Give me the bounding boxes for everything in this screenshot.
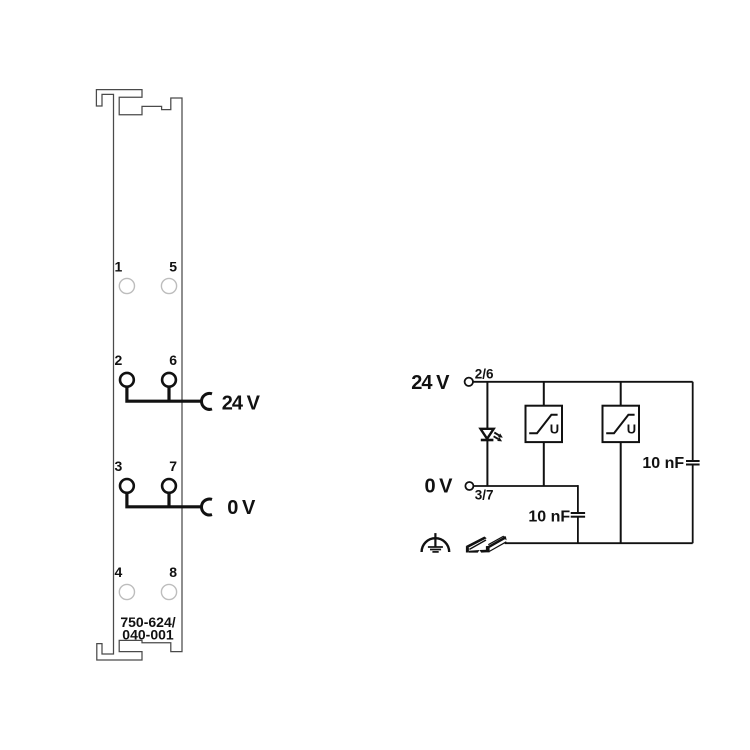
wire 0V down to C1	[577, 485, 579, 513]
capacitor C2 10nF	[686, 460, 700, 462]
LED D1	[481, 429, 494, 439]
wire 0V rail	[474, 485, 578, 487]
wire 24V rail	[473, 381, 692, 383]
filter block U1	[526, 406, 563, 442]
svg-text:24 V: 24 V	[411, 372, 450, 394]
terminal 7	[162, 479, 176, 493]
wire stub 7	[167, 493, 170, 507]
U2 lower wire	[620, 442, 622, 543]
svg-text:040-001: 040-001	[122, 627, 174, 643]
bottom band right	[480, 550, 487, 553]
svg-text:6: 6	[169, 352, 177, 368]
svg-text:0 V: 0 V	[425, 476, 454, 498]
terminal 2	[120, 373, 134, 387]
wire right branch down	[692, 382, 694, 461]
right flange bottom edge	[489, 542, 506, 552]
connector arc 24V	[202, 393, 212, 409]
svg-text:U: U	[550, 422, 559, 437]
left flange inner edge	[469, 540, 486, 549]
U1 lower wire	[543, 442, 545, 486]
svg-text:8: 8	[169, 564, 177, 580]
DIN rail symbol	[466, 536, 507, 553]
svg-text:5: 5	[169, 259, 177, 275]
LED D1 branch wire	[486, 382, 488, 429]
wire stub 6	[167, 387, 170, 402]
right foot	[486, 546, 490, 553]
svg-text:10 nF: 10 nF	[642, 455, 684, 472]
right flange front bar	[488, 537, 507, 548]
terminal node 2/6	[465, 378, 473, 386]
svg-text:2/6: 2/6	[475, 366, 494, 381]
left flange top bar	[466, 537, 487, 548]
svg-text:0 V: 0 V	[227, 497, 256, 519]
filter U2 branch wire	[620, 382, 622, 406]
terminal 4	[119, 584, 134, 599]
filter U1 branch wire	[543, 382, 545, 406]
bottom band left	[469, 550, 480, 553]
capacitor C1 10nF	[571, 512, 585, 514]
terminal 6	[162, 373, 176, 387]
left foot	[466, 546, 469, 553]
ground rail	[505, 542, 693, 544]
LED light arrows	[494, 433, 503, 442]
right flange top edge	[488, 536, 503, 545]
svg-text:7: 7	[169, 458, 177, 474]
terminal 8	[161, 584, 176, 599]
wire C2 to ground rail	[692, 465, 694, 544]
terminal 5	[161, 278, 176, 293]
svg-text:3: 3	[115, 458, 123, 474]
module body outline	[96, 90, 182, 660]
svg-text:2: 2	[115, 352, 123, 368]
svg-text:4: 4	[115, 564, 123, 580]
wire 24V row	[127, 387, 201, 402]
wire C1 to ground rail	[577, 517, 579, 544]
connector arc 0V	[202, 499, 212, 515]
functional earth symbol	[422, 533, 450, 552]
svg-text:10 nF: 10 nF	[528, 508, 570, 525]
terminal 3	[120, 479, 134, 493]
terminal node 3/7	[465, 482, 473, 490]
terminal 1	[119, 278, 134, 293]
filter block U2	[603, 406, 640, 442]
right end cap	[503, 536, 507, 540]
svg-text:U: U	[627, 422, 636, 437]
svg-text:1: 1	[115, 259, 123, 275]
svg-text:24 V: 24 V	[222, 393, 261, 415]
LED lower wire	[486, 440, 488, 486]
wire 0V row	[127, 493, 201, 507]
svg-text:3/7: 3/7	[475, 488, 494, 503]
